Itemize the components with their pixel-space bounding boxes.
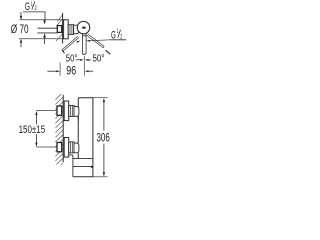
bottom edge — [73, 176, 93, 178]
dim Ø70 top extension line — [20, 19, 64, 21]
dim 306 top extension — [93, 97, 108, 99]
ghost lever right (rotated +50) — [87, 34, 105, 48]
dim Ø70 top arrow — [20, 12, 22, 17]
svg-text:1: 1 — [117, 28, 119, 35]
knob (temperature handle, top view) — [77, 21, 90, 33]
cap piece (top view) — [74, 25, 79, 34]
svg-text:50°: 50° — [93, 54, 105, 65]
dim 150 top arrow — [35, 111, 37, 115]
wall line (side view) — [62, 95, 64, 162]
underline G1/2 outlet — [110, 39, 126, 41]
dim 306 bottom arrow — [103, 144, 105, 173]
union nut (top view) — [68, 25, 73, 35]
escutcheon (top view) — [64, 20, 69, 39]
dim 96 left extension — [59, 63, 61, 76]
arrow G1/2 lower stem — [44, 37, 46, 44]
dim 96 left arrow — [47, 70, 57, 72]
dim Ø70 bottom arrow — [20, 39, 22, 43]
wall line (top view) — [62, 13, 64, 44]
concealed union lower (side view) — [57, 143, 62, 152]
outlet block left contour — [69, 155, 73, 177]
outlet step line 1 — [73, 158, 93, 160]
svg-text:96: 96 — [66, 64, 76, 78]
svg-text:2: 2 — [120, 33, 123, 40]
arrow flick left ghost end — [62, 50, 64, 53]
outlet notch — [91, 166, 93, 168]
outlet step line 2 — [73, 166, 93, 168]
escutcheon upper (side view) — [64, 101, 69, 121]
wall hatch (side view) — [55, 92, 64, 171]
lever (shut-off handle, top view) — [81, 33, 83, 53]
leader underline G1/2 inlet — [23, 11, 45, 13]
body (side view) outline — [78, 98, 93, 177]
svg-text:2: 2 — [34, 5, 37, 12]
label G1/2 outlet text — [111, 28, 123, 41]
ghost lever left (rotated -50) — [62, 36, 79, 51]
supply pipe (top view) — [38, 27, 58, 29]
svg-text:G: G — [25, 1, 30, 13]
dim 150 upper extension — [36, 110, 57, 112]
union nut upper (side view) — [69, 105, 74, 116]
svg-text:G: G — [111, 29, 116, 41]
dim 150 bottom arrow — [35, 134, 37, 143]
svg-text:150±15: 150±15 — [19, 124, 46, 136]
small arrow left of lever — [77, 41, 81, 43]
dim 306 bottom extension — [93, 176, 108, 178]
dim 96 right arrow — [85, 70, 89, 72]
dim Ø70 bottom extension line — [19, 38, 64, 40]
body left edge mid segment — [77, 116, 79, 143]
leader drop G1/2 inlet — [44, 12, 46, 20]
wall hatch (top view) — [57, 15, 63, 22]
label G1/2 inlet text — [25, 1, 37, 13]
svg-text:306: 306 — [97, 130, 111, 144]
leader G1/2 outlet arrow — [86, 40, 90, 42]
arrow flick right ghost end — [106, 50, 111, 54]
knob slot — [82, 27, 86, 29]
escutcheon lower (side view) — [64, 138, 69, 158]
cap upper (side view) — [74, 107, 79, 117]
concealed union (top view) — [57, 26, 61, 33]
dim 306 top arrow — [103, 98, 105, 102]
svg-text:Ø 70: Ø 70 — [11, 22, 29, 36]
arrow G1/2 up onto pipe bottom — [43, 33, 46, 37]
union nut lower (side view) — [69, 142, 74, 153]
dim 150 lower extension — [36, 146, 57, 148]
cap lower (side view) — [74, 143, 79, 153]
concealed union upper (side view) — [57, 106, 62, 115]
lever centerline extension — [83, 56, 85, 76]
50-deg arrows at centerline — [76, 59, 80, 61]
arrow G1/2 down onto pipe — [43, 20, 46, 24]
